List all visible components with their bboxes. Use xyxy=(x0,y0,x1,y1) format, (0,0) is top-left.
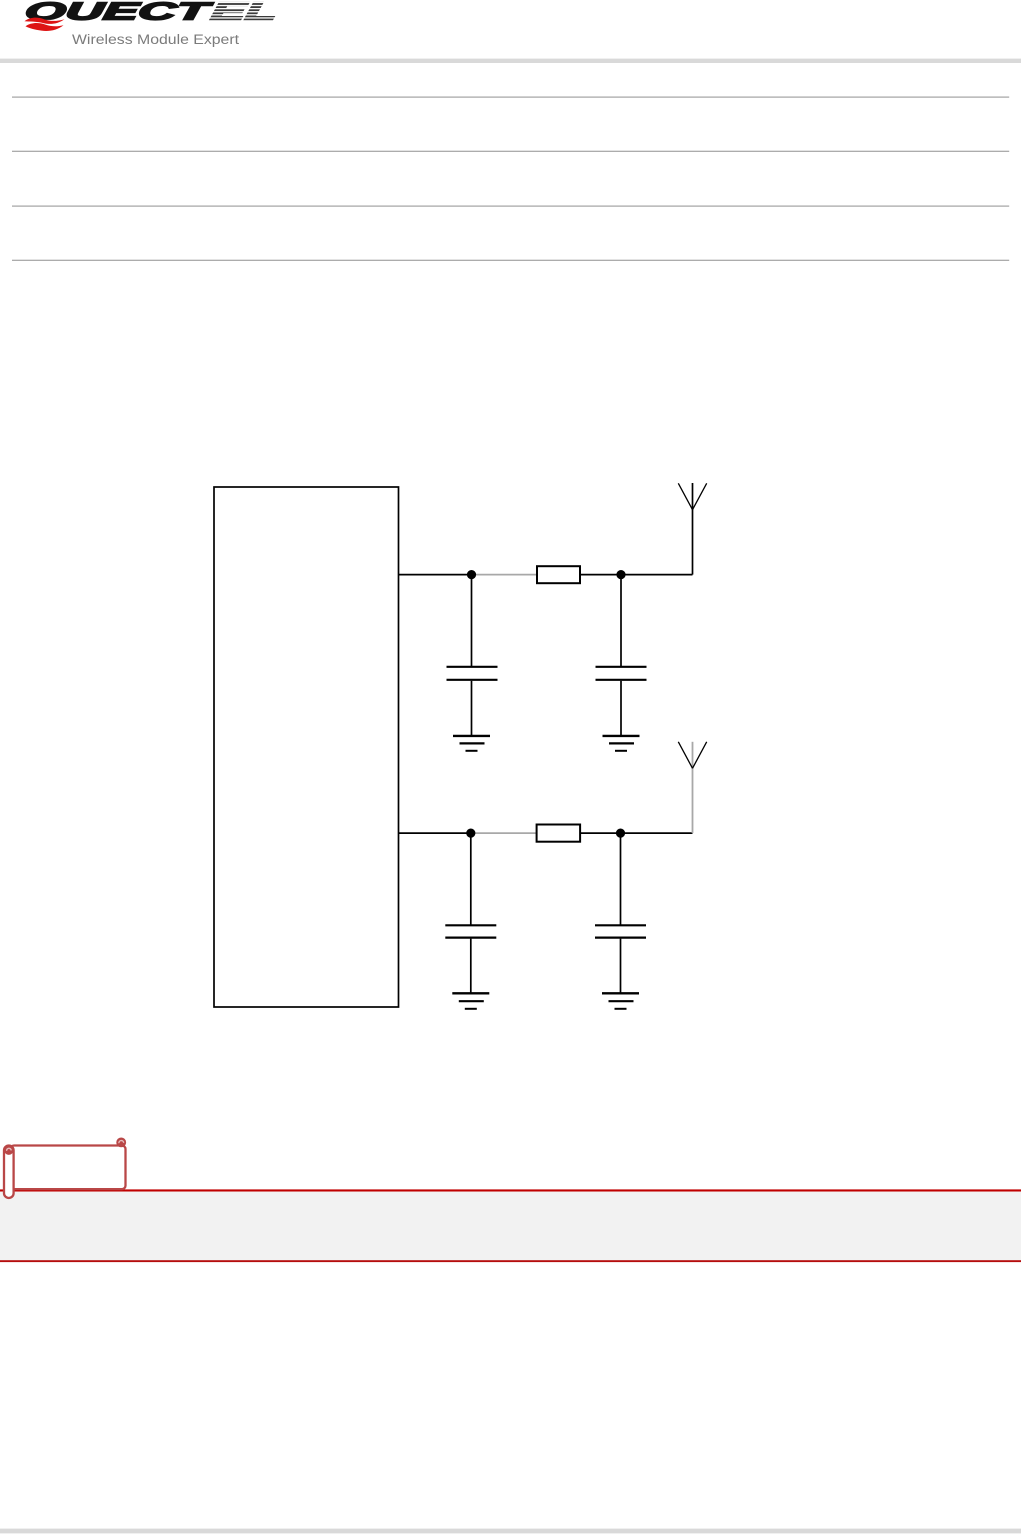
svg-text:Wireless Module Expert: Wireless Module Expert xyxy=(72,32,239,48)
svg-text:EL: EL xyxy=(209,0,279,25)
